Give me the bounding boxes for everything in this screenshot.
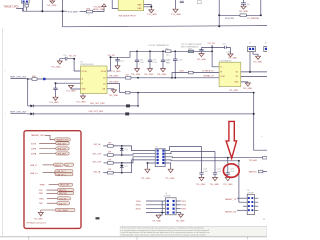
svg-text:GND: GND [234, 82, 239, 84]
resistor R82 [108, 162, 114, 165]
svg-text:TVL_GND: TVL_GND [171, 14, 181, 16]
svg-text:D22: D22 [125, 166, 128, 168]
svg-text:TV_SELE_TX: TV_SELE_TX [202, 70, 215, 72]
node flag USB_DP1 [55, 170, 73, 173]
wire [146, 204, 165, 206]
capacitor C32 [115, 57, 119, 66]
wire [249, 52, 251, 72]
diode block D1 [118, 0, 144, 11]
svg-text:20.0: 20.0 [166, 55, 169, 57]
resistor R47 [126, 77, 131, 80]
diode D8 [30, 104, 33, 107]
wire [26, 7, 28, 11]
svg-text:TVL_GND: TVL_GND [210, 184, 220, 186]
svg-text:UCA_TX: UCA_TX [58, 202, 66, 205]
ground TVL_GND [51, 0, 53, 1]
wire [146, 200, 165, 202]
svg-text:4: 4 [261, 136, 262, 138]
op-amp U4 [81, 66, 108, 94]
svg-text:TVL_GND: TVL_GND [141, 178, 151, 180]
wire pin VCCA [107, 57, 111, 71]
svg-text:499: 499 [108, 159, 111, 161]
svg-text:USB_DP_2: USB_DP_2 [56, 174, 65, 176]
node flag GDB_3V3 [56, 142, 69, 145]
svg-text:C34: C34 [222, 43, 225, 45]
resistor R46 [32, 78, 37, 81]
junction [73, 58, 75, 60]
wire J3 out row1 [165, 147, 201, 151]
junction [249, 71, 251, 73]
svg-text:0.1uF: 0.1uF [203, 171, 207, 173]
wire pin VCCB [74, 59, 80, 71]
wire [254, 198, 258, 210]
svg-text:J4: J4 [249, 43, 251, 45]
svg-text:3V3_PRG: 3V3_PRG [225, 18, 234, 20]
svg-text:TVL_GND: TVL_GND [176, 220, 185, 222]
wire [131, 77, 219, 79]
svg-text:GDB_3V3: GDB_3V3 [57, 143, 66, 145]
node flag UCA_TX [57, 202, 70, 205]
svg-text:HW DIODE PROT: HW DIODE PROT [119, 15, 137, 17]
ground TVL_GND [213, 177, 218, 180]
capacitor C105 [173, 51, 177, 78]
svg-text:TXD: TXD [39, 203, 44, 205]
svg-text:1V8S: 1V8S [31, 149, 37, 151]
node flag UCA_RX [57, 197, 70, 200]
ground TVL_GND [38, 212, 43, 216]
junction [260, 14, 262, 16]
resistor R90 [263, 156, 268, 159]
diode D9 [30, 112, 33, 115]
wire J3 out row4 [165, 159, 239, 162]
svg-text:TVL_GND: TVL_GND [131, 74, 141, 76]
diode D22 [121, 163, 123, 165]
svg-text:CH1_DRV1: CH1_DRV1 [109, 76, 119, 78]
power TVL_AVD [102, 4, 106, 7]
annotation arrow [226, 121, 237, 158]
wire U9 out2 [241, 76, 267, 78]
svg-text:TxSel: TxSel [179, 70, 184, 72]
ground TVL_GND [161, 69, 166, 72]
disclaimer box [120, 226, 267, 236]
resistor R81 [108, 154, 114, 157]
ground J5 left [159, 201, 163, 215]
wire [27, 78, 81, 80]
svg-text:TVL_GND: TVL_GND [49, 102, 59, 104]
svg-text:PWR: PWR [40, 185, 45, 187]
wire [43, 171, 56, 175]
wire [260, 0, 262, 15]
annotation box SP mode connector [24, 131, 81, 229]
annotation circle [223, 164, 239, 178]
svg-text:499: 499 [108, 152, 111, 154]
ground TVL_GND [253, 52, 258, 57]
svg-text:VCCA: VCCA [101, 70, 107, 73]
wire [193, 72, 219, 74]
node RTS1 [176, 208, 181, 210]
ground TVL_GND [57, 61, 62, 64]
resistor R97 [188, 50, 193, 53]
junction [136, 50, 138, 52]
node flag GDB_1V8 [56, 147, 69, 150]
junction [227, 157, 229, 159]
junction [121, 154, 123, 156]
node flag COM_DNEXT [55, 208, 75, 211]
ground TVL_GND [225, 177, 230, 180]
wire [16, 9, 67, 12]
svg-text:CH2_OUT: CH2_OUT [92, 162, 102, 164]
wire [202, 46, 231, 48]
svg-text:SIGNAL_TX: SIGNAL_TX [203, 75, 214, 78]
capacitor C6 [241, 0, 246, 6]
resistor R1 [25, 4, 29, 7]
svg-text:J3: J3 [155, 146, 157, 148]
svg-text:V+: V+ [220, 67, 222, 69]
junction [238, 160, 240, 162]
svg-text:0: 0 [88, 14, 89, 16]
junction [110, 56, 112, 58]
wire [113, 157, 155, 163]
ground TVL_GND [53, 97, 58, 100]
wire pin A1 CH1_DRV1 [107, 77, 126, 79]
svg-text:TVL_GND: TVL_GND [229, 90, 238, 92]
wire [103, 172, 107, 174]
ferrite FB1 [126, 104, 130, 107]
wire [27, 79, 29, 106]
resistor R73 [86, 10, 92, 13]
header J5 [165, 198, 176, 215]
junction [137, 105, 139, 107]
svg-text:D21: D21 [125, 149, 128, 151]
ground U4 GND [82, 94, 84, 97]
junction [27, 78, 29, 80]
junction [150, 6, 152, 8]
wire [39, 148, 56, 150]
capacitor C30 [60, 57, 74, 61]
ground pin GA [107, 89, 114, 90]
svg-text:PAD: PAD [138, 7, 142, 10]
wire [39, 142, 56, 144]
node flag SBWTCK [57, 189, 74, 192]
svg-text:TVL_GND: TVL_GND [223, 184, 233, 186]
svg-text:AVDD_JTAG: AVDD_JTAG [93, 8, 105, 11]
resistor R96 [166, 50, 171, 53]
comparator U9 [219, 62, 241, 86]
svg-text:PAD: PAD [138, 4, 142, 7]
svg-text:TVL_GND: TVL_GND [144, 74, 154, 76]
svg-text:TVL_GND: TVL_GND [243, 88, 253, 90]
svg-text:J6: J6 [265, 43, 267, 45]
svg-text:COM_DNEXT: COM_DNEXT [57, 210, 70, 212]
svg-text:0.1uF: 0.1uF [153, 62, 157, 64]
svg-text:C105: C105 [166, 59, 170, 61]
wire [62, 0, 64, 27]
svg-text:CH2_IA: CH2_IA [93, 170, 101, 173]
wire [47, 202, 57, 204]
svg-text:TVL_GND: TVL_GND [147, 14, 157, 16]
wire [41, 210, 55, 212]
junction [218, 14, 220, 16]
junction [218, 25, 220, 27]
capacitor C33 [199, 47, 203, 53]
wire [237, 197, 247, 199]
svg-text:R96: R96 [165, 48, 168, 50]
svg-text:TARGET_RST: TARGET_RST [31, 134, 45, 137]
wire comparator inA [172, 73, 188, 78]
wire [212, 45, 219, 67]
svg-text:CH1_IA: CH1_IA [93, 143, 101, 146]
svg-text:TCK_ADJ: TCK_ADJ [249, 159, 257, 162]
junction [121, 172, 123, 174]
svg-text:0.1uF: 0.1uF [230, 171, 234, 173]
svg-text:499: 499 [108, 169, 111, 171]
node flag TARGET_PCK [55, 138, 71, 141]
junction [211, 47, 213, 49]
node flag USB_DP2 [55, 173, 73, 176]
svg-text:implementation. Texas Instrume: implementation. Texas Instruments and/or… [122, 233, 207, 236]
junction [43, 78, 45, 80]
wire [104, 154, 108, 156]
svg-text:TRY TO MATCH DRV8X: TRY TO MATCH DRV8X [181, 43, 202, 46]
svg-text:CH1_OUT_DRV: CH1_OUT_DRV [90, 103, 105, 105]
wire [243, 205, 247, 207]
svg-text:TVL_GND: TVL_GND [197, 59, 207, 61]
diode D3 [96, 217, 100, 219]
node flag D_N [64, 163, 73, 166]
capacitor C121 [199, 147, 203, 178]
svg-text:TVL_GND: TVL_GND [239, 11, 249, 13]
svg-text:TVL_GND: TVL_GND [111, 71, 121, 73]
svg-text:TARGET_PCK: TARGET_PCK [56, 139, 69, 142]
ground TVL_GND [148, 69, 153, 72]
svg-text:TVL_GND: TVL_GND [165, 178, 175, 180]
svg-text:TVL_PD: TVL_PD [207, 43, 215, 45]
svg-text:B1: B1 [103, 83, 105, 85]
svg-text:UCA_RX: UCA_RX [59, 197, 67, 200]
svg-text:0.1uF: 0.1uF [226, 51, 230, 53]
header J6 [264, 46, 267, 51]
wire [146, 208, 165, 210]
wire [237, 209, 247, 211]
junction [55, 82, 57, 84]
ground TVL_GND [241, 6, 246, 9]
wire [120, 92, 126, 94]
wire [45, 135, 55, 139]
capacitor C34 [225, 46, 227, 49]
svg-text:0.1uF: 0.1uF [178, 59, 182, 61]
svg-text:TARGET_TX: TARGET_TX [225, 198, 237, 201]
capacitor C122 [213, 152, 217, 178]
svg-text:USB_D+: USB_D+ [30, 173, 39, 175]
wire [47, 197, 57, 199]
svg-text:TVL_PD: TVL_PD [69, 56, 77, 58]
svg-text:TVL_GND: TVL_GND [51, 67, 61, 69]
svg-text:SP Mode Connection: SP Mode Connection [26, 222, 46, 225]
capacitor C38 [135, 51, 139, 68]
svg-text:3V3S: 3V3S [31, 144, 37, 146]
svg-text:CH1_OUT: CH1_OUT [92, 154, 102, 156]
ferrite FB2 [125, 112, 129, 115]
node flag GDB_AUX [56, 152, 69, 155]
header J4 [248, 46, 256, 51]
svg-text:TVL_GND: TVL_GND [66, 91, 76, 93]
svg-text:PJ_PWRSW: PJ_PWRSW [247, 18, 258, 20]
node flag VBUS_HH [58, 183, 72, 186]
junction [137, 77, 139, 79]
svg-text:QSH-BP: QSH-BP [164, 196, 172, 198]
wire [46, 190, 57, 193]
svg-text:R47: R47 [126, 75, 129, 77]
wire [263, 171, 267, 173]
svg-text:3V3A: 3V3A [31, 153, 37, 156]
header J8 [247, 194, 254, 214]
wire J3 out row3 [165, 156, 267, 159]
ground pin GND stub [71, 88, 81, 91]
diode D21 [121, 146, 123, 148]
svg-text:QTH-BP: QTH-BP [247, 192, 255, 194]
wire [41, 0, 43, 11]
capacitor C123 [226, 158, 230, 178]
resistor R83 [108, 171, 114, 174]
ground TVL_GND [150, 7, 152, 10]
wire [103, 145, 107, 147]
wire [239, 161, 247, 202]
wire [112, 0, 118, 8]
junction [62, 10, 64, 12]
svg-text:USB_N: USB_N [55, 165, 62, 167]
svg-text:TVL_GND: TVL_GND [253, 62, 262, 64]
svg-text:DRV8210DSGR: DRV8210DSGR [80, 64, 94, 66]
resistor R48 [125, 91, 130, 94]
svg-text:RXD1: RXD1 [181, 205, 186, 207]
resistor R6 [240, 14, 246, 17]
wire U9 out1 [241, 71, 267, 73]
junction [41, 10, 43, 12]
svg-text:0.1uF: 0.1uF [217, 171, 221, 173]
wire [218, 0, 220, 26]
svg-text:J5: J5 [165, 193, 167, 195]
svg-text:3V3_MSP: 3V3_MSP [68, 11, 78, 13]
svg-text:R46: R46 [32, 76, 35, 78]
node RXD1 [176, 204, 181, 206]
svg-text:FOR 40 TERMINATION: FOR 40 TERMINATION [149, 44, 170, 47]
svg-text:TXD0: TXD0 [136, 201, 141, 203]
svg-text:TLV3201AIDCK: TLV3201AIDCK [219, 59, 232, 62]
svg-text:RTS0: RTS0 [136, 209, 141, 211]
svg-text:TARGET_RX: TARGET_RX [225, 210, 237, 213]
svg-text:VBUS_HH: VBUS_HH [60, 185, 70, 187]
node flag USB_N [54, 163, 64, 166]
svg-text:499: 499 [108, 142, 111, 144]
node TXD1 [176, 200, 181, 202]
svg-text:CH2_DRV2: CH2_DRV2 [109, 81, 119, 83]
wire pin B [56, 82, 81, 84]
svg-text:TXD1: TXD1 [181, 201, 186, 203]
resistor R75 [188, 71, 193, 74]
svg-text:TVL_GND: TVL_GND [76, 101, 86, 103]
wire [130, 92, 254, 94]
wire [104, 162, 108, 164]
ground TVL_GND [135, 69, 140, 72]
wire J3 out row2 [165, 152, 215, 154]
svg-text:GND: GND [82, 89, 87, 91]
wire [80, 11, 87, 13]
svg-text:COM: COM [220, 76, 225, 78]
svg-text:SBWTCK: SBWTCK [249, 172, 258, 174]
capacitor C31 [53, 83, 57, 97]
svg-text:RXD0: RXD0 [136, 205, 141, 207]
wire [113, 154, 155, 155]
resistor R91 [259, 170, 263, 173]
label B1 [198, 1, 202, 4]
junction [121, 162, 123, 164]
svg-text:TVL_GND: TVL_GND [157, 74, 167, 76]
wire [113, 146, 155, 151]
wire [22, 3, 24, 11]
wire J3 gnd right [165, 163, 171, 169]
wire pin B1 CH2_DRV2 [107, 84, 120, 93]
junction [137, 92, 139, 94]
wire [93, 7, 104, 12]
svg-text:TVL_GND: TVL_GND [196, 184, 206, 186]
ground TVL_GND [199, 54, 204, 57]
capacitor C39 [148, 51, 152, 68]
svg-text:VCCB: VCCB [82, 71, 88, 73]
wire [144, 5, 152, 7]
svg-text:CH2_OUT_DRV: CH2_OUT_DRV [88, 111, 103, 113]
svg-text:USB_D-: USB_D- [30, 165, 38, 167]
ground TVL_GND [230, 47, 232, 54]
resistor R80 [108, 145, 114, 148]
svg-text:SBWTDIO: SBWTDIO [59, 193, 68, 195]
svg-text:RTS1: RTS1 [181, 209, 186, 211]
node flag SBWTDIO [57, 192, 74, 195]
ground TVL_GND [115, 66, 120, 69]
wire [111, 51, 213, 57]
capacitor C40 [161, 51, 165, 68]
header J1 [22, 0, 30, 3]
svg-text:TVL_GND: TVL_GND [47, 5, 57, 7]
ground TVL_GND [199, 177, 204, 180]
svg-text:TVL_GND: TVL_GND [34, 219, 43, 221]
svg-text:GDB_AUX: GDB_AUX [57, 153, 67, 156]
wire [130, 93, 138, 106]
wire [63, 26, 268, 27]
wire [39, 153, 56, 155]
wire [146, 212, 165, 214]
wire CH2_OUT_DRV [27, 113, 254, 115]
wire J3 gnd left [147, 163, 155, 169]
svg-text:TVL_GND: TVL_GND [228, 57, 237, 59]
svg-text:C30: C30 [63, 55, 66, 57]
wire CH1_OUT_DRV [28, 105, 126, 107]
wire [43, 164, 54, 166]
svg-text:A1: A1 [103, 77, 105, 80]
ground U9 GND [241, 82, 248, 83]
ground J5 right [176, 213, 181, 215]
svg-text:GDB_1V8: GDB_1V8 [57, 149, 66, 151]
capacitor C5 [180, 1, 184, 2]
svg-text:TVL_GND: TVL_GND [152, 220, 161, 222]
svg-text:TVL_GND: TVL_GND [109, 95, 119, 97]
svg-text:0.1uF: 0.1uF [140, 62, 144, 64]
junction [121, 145, 123, 147]
svg-text:0.1uF: 0.1uF [120, 61, 124, 63]
svg-text:TVL_PD: TVL_PD [107, 55, 115, 57]
wire [49, 184, 59, 186]
ground TVL_GND [175, 0, 177, 9]
wire [113, 160, 155, 173]
